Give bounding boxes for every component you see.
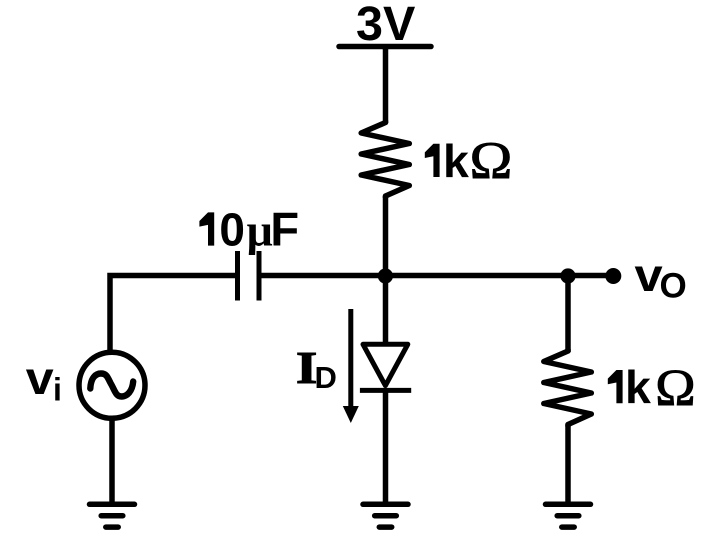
svg-text:i: i — [53, 372, 62, 408]
wire node A to output terminal — [386, 273, 613, 279]
wire node B to resistor R2 — [565, 276, 571, 353]
wire rail to resistor R1 — [383, 47, 389, 124]
svg-text:3V: 3V — [356, 0, 416, 51]
svg-text:μ: μ — [247, 205, 273, 256]
svg-text:v: v — [26, 353, 54, 405]
label 1kΩ (right) — [608, 370, 623, 403]
resistor R2 zigzag — [544, 349, 592, 427]
wire left segment to capacitor — [110, 276, 235, 352]
wire diode D1 to ground — [383, 391, 389, 505]
node B junction dot — [560, 268, 575, 283]
label ID — [296, 342, 317, 393]
label 10µF — [199, 212, 214, 245]
diode D1 triangle — [363, 344, 408, 385]
diode D1 cathode bar — [360, 388, 411, 393]
wire resistor R1 to node A — [383, 196, 389, 277]
svg-text:Ω: Ω — [470, 131, 513, 189]
svg-text:0: 0 — [219, 204, 245, 256]
svg-text:O: O — [660, 267, 687, 306]
resistor R1 zigzag — [361, 121, 409, 199]
ground (middle) — [363, 504, 408, 527]
capacitor C1 plates — [235, 251, 240, 301]
source vi circle — [79, 352, 145, 418]
ground (left) — [90, 504, 135, 527]
label vi — [26, 353, 54, 405]
wire capacitor to node A — [262, 273, 386, 279]
ground (right) — [546, 504, 591, 527]
wire node A to diode D1 — [383, 276, 389, 345]
svg-text:k: k — [443, 135, 469, 187]
svg-text:k: k — [625, 361, 651, 413]
output terminal dot — [605, 268, 621, 284]
wire source to ground — [109, 418, 115, 504]
power rail 3V — [339, 44, 431, 50]
label 1kΩ (top) — [425, 144, 440, 177]
wire resistor R2 to ground — [565, 425, 571, 505]
svg-text:D: D — [315, 360, 337, 395]
label vO — [635, 250, 663, 302]
svg-text:v: v — [635, 250, 663, 302]
node A junction dot — [378, 268, 393, 283]
source sine wave — [90, 374, 133, 397]
svg-text:F: F — [270, 203, 299, 256]
svg-text:Ω: Ω — [655, 360, 695, 416]
current arrow ID — [348, 309, 353, 409]
